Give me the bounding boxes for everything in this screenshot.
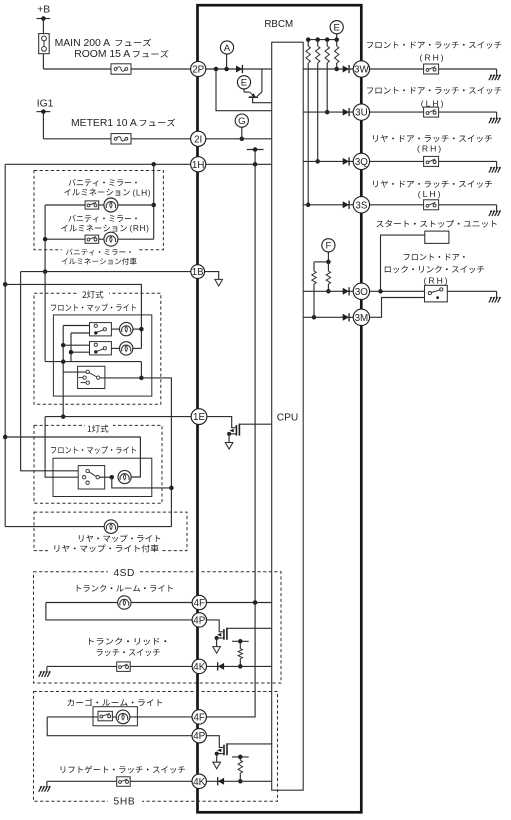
svg-text:3M: 3M bbox=[355, 313, 369, 324]
svg-text:(RH): (RH) bbox=[424, 276, 450, 286]
svg-text:(RH): (RH) bbox=[417, 144, 443, 154]
svg-text:1B: 1B bbox=[192, 267, 204, 278]
svg-text:4F: 4F bbox=[193, 712, 204, 723]
svg-text:(RH): (RH) bbox=[130, 223, 150, 233]
svg-text:4F: 4F bbox=[194, 598, 205, 609]
svg-text:+B: +B bbox=[37, 5, 50, 16]
svg-text:G: G bbox=[238, 116, 245, 127]
svg-text:(LH): (LH) bbox=[421, 98, 446, 108]
svg-text:MAIN 200 A: MAIN 200 A bbox=[55, 38, 111, 49]
svg-text:METER1 10 A: METER1 10 A bbox=[71, 118, 137, 129]
svg-text:3O: 3O bbox=[355, 287, 368, 298]
svg-text:4P: 4P bbox=[193, 731, 205, 742]
svg-text:3S: 3S bbox=[355, 200, 367, 211]
svg-text:RBCM: RBCM bbox=[264, 19, 293, 30]
svg-text:E: E bbox=[333, 23, 339, 34]
svg-text:4K: 4K bbox=[193, 662, 205, 673]
svg-text:CPU: CPU bbox=[277, 412, 299, 423]
svg-text:1H: 1H bbox=[192, 160, 205, 171]
svg-text:IG1: IG1 bbox=[37, 98, 54, 109]
svg-text:F: F bbox=[325, 241, 331, 252]
svg-text:3U: 3U bbox=[355, 108, 368, 119]
svg-text:2I: 2I bbox=[194, 134, 202, 145]
svg-text:4P: 4P bbox=[193, 615, 205, 626]
svg-text:A: A bbox=[224, 43, 231, 54]
svg-text:3W: 3W bbox=[354, 65, 369, 76]
svg-text:4K: 4K bbox=[193, 777, 205, 788]
svg-text:5HB: 5HB bbox=[114, 797, 136, 808]
svg-text:(LH): (LH) bbox=[133, 187, 152, 197]
svg-text:3Q: 3Q bbox=[355, 157, 368, 168]
svg-text:ROOM 15 A: ROOM 15 A bbox=[74, 49, 130, 60]
svg-text:(LH): (LH) bbox=[418, 189, 443, 199]
svg-text:(RH): (RH) bbox=[420, 53, 446, 63]
svg-text:1E: 1E bbox=[193, 412, 205, 423]
svg-text:E: E bbox=[241, 78, 247, 89]
svg-text:2P: 2P bbox=[192, 65, 204, 76]
svg-text:4SD: 4SD bbox=[114, 568, 135, 579]
